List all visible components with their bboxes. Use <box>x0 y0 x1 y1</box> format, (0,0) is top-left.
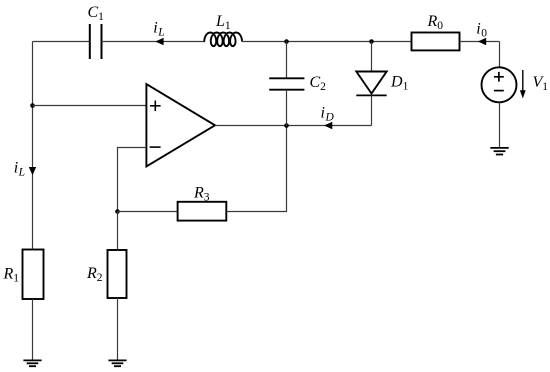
current arrow iL top <box>155 38 163 45</box>
wire top left to C1 <box>33 41 90 43</box>
V1 direction arrow <box>520 70 526 99</box>
inductor L1 <box>204 32 242 46</box>
wire V1 top lead <box>499 42 501 68</box>
resistor R0 <box>412 33 460 51</box>
wire minus input <box>118 148 147 212</box>
wire plus input <box>33 105 147 107</box>
wire R0 to V1 <box>460 41 500 43</box>
wire C1 to L1 <box>102 41 206 43</box>
wire op-amp output <box>215 125 372 127</box>
wire R2 to ground <box>117 298 119 360</box>
node top-D1 <box>369 39 374 44</box>
node plus-input <box>30 103 35 108</box>
wire R3 to riser <box>226 126 286 212</box>
current arrow i0 <box>478 38 486 45</box>
wire C2 bottom lead <box>286 90 288 126</box>
wire node to R3 <box>118 211 178 213</box>
voltage source V1 <box>482 67 517 102</box>
wire D1 bottom lead <box>371 95 373 125</box>
current arrow iL left <box>29 167 36 175</box>
node output <box>284 123 289 128</box>
op-amp U1 <box>146 84 215 167</box>
wire R1 to ground <box>32 299 34 360</box>
capacitor C2 <box>269 78 304 89</box>
resistor R2 <box>108 250 127 298</box>
ground R1 <box>23 360 41 366</box>
current arrow iD <box>324 122 332 129</box>
wire left vertical <box>32 42 34 250</box>
capacitor C1 <box>90 24 102 59</box>
wire R2 top lead <box>117 212 119 251</box>
ground V1 <box>490 148 508 155</box>
ground R2 <box>108 360 126 366</box>
node feedback <box>115 209 120 214</box>
diode D1 <box>356 72 386 96</box>
wire C2 top lead <box>286 42 288 79</box>
wire L1 to R0 <box>242 41 412 43</box>
resistor R3 <box>178 202 227 221</box>
wire V1 bottom lead <box>499 102 501 148</box>
wire D1 top lead <box>371 42 373 72</box>
resistor R1 <box>23 250 44 300</box>
node top-C2 <box>284 39 289 44</box>
